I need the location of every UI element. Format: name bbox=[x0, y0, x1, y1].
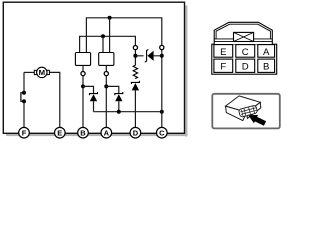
breaker contact dot bottom bbox=[22, 99, 26, 103]
pin cell E bbox=[214, 45, 233, 59]
svg-text:A: A bbox=[104, 128, 110, 137]
connector pinout: hat inner contour bbox=[216, 24, 270, 39]
wire: ZD2 to bottom link bbox=[118, 101, 120, 112]
svg-text:F: F bbox=[220, 61, 226, 72]
relay coil 2 (right box) bbox=[99, 53, 114, 66]
connector pinout: hat outer contour bbox=[214, 22, 272, 44]
terminal D bbox=[130, 127, 141, 138]
motor M1 body bbox=[37, 67, 47, 77]
arrow pointer bbox=[248, 115, 266, 126]
panel shadow bbox=[6, 6, 187, 137]
wire: relay1 bottom stub bbox=[82, 65, 84, 71]
terminal C bbox=[157, 127, 168, 138]
zener diode ZD2 bbox=[115, 92, 123, 101]
junction dot bottom link at C bbox=[160, 110, 164, 114]
wire: relay2 bottom stub bbox=[105, 65, 107, 71]
wire: D column down to terminal D bbox=[134, 90, 136, 127]
pin cell F bbox=[214, 59, 233, 72]
terminal E bbox=[55, 127, 66, 138]
junction dot rail1 bbox=[108, 16, 112, 20]
junction dot D column top bbox=[133, 54, 137, 58]
terminal A bbox=[101, 127, 112, 138]
terminal F bbox=[19, 127, 30, 138]
connector pinout: collar line lower bbox=[214, 40, 272, 42]
connector icon panel bbox=[212, 94, 279, 129]
connector joint circle under relay1 bbox=[81, 72, 85, 76]
wire: motor loop top right bbox=[49, 72, 60, 127]
svg-text:A: A bbox=[263, 47, 270, 58]
motor M1 brush right bbox=[47, 70, 49, 74]
svg-text:C: C bbox=[159, 128, 165, 137]
wire: ZD1 to bottom link bbox=[93, 101, 95, 112]
connector 3D icon: right face bbox=[247, 102, 261, 118]
svg-text:M: M bbox=[39, 68, 45, 77]
pin cell A bbox=[258, 45, 275, 59]
svg-text:C: C bbox=[242, 47, 249, 58]
connector joint circle D column bbox=[133, 46, 137, 50]
connector 3D icon: top face bbox=[226, 96, 261, 112]
wire: jog A to zener ZD2 bbox=[106, 86, 119, 93]
wire: diode branch bbox=[135, 55, 161, 57]
zener diode ZD4 (horizontal, pointing left) bbox=[145, 49, 154, 62]
rail wire top (to relay pins and C column) bbox=[86, 18, 161, 53]
component box (mirror assembly outline) bbox=[3, 2, 184, 133]
connector joint circle C column bbox=[160, 45, 164, 49]
junction dot B column bbox=[81, 84, 85, 88]
svg-text:E: E bbox=[220, 47, 226, 58]
pin cell C bbox=[236, 45, 255, 59]
circuit breaker (bracket) bbox=[21, 93, 24, 102]
wire: D column circle to dot bbox=[134, 50, 136, 56]
motor M1 brush left bbox=[34, 70, 36, 74]
wire: A column bbox=[105, 76, 107, 128]
relay coil 1 (left box) bbox=[75, 53, 90, 66]
junction dot diode branch right bbox=[160, 54, 164, 58]
svg-text:F: F bbox=[22, 128, 27, 137]
connector pinout: latch with X bbox=[234, 32, 254, 41]
junction dot A column bbox=[104, 84, 108, 88]
connector pinout: collar line upper bbox=[214, 38, 272, 40]
wire: C column bbox=[161, 50, 163, 128]
junction dot rail2 bbox=[101, 34, 105, 38]
wire: jog B to zener ZD1 bbox=[83, 86, 94, 93]
svg-text:B: B bbox=[263, 61, 269, 72]
bottom link wire to C column bbox=[94, 111, 162, 113]
svg-text:D: D bbox=[242, 61, 249, 72]
junction dot ZD2 bottom bbox=[117, 110, 121, 114]
connector 3D icon: terminal collar bbox=[238, 105, 257, 117]
wire: rail1 drop to relay 2 right pin bbox=[109, 18, 111, 53]
connector pinout: shell bbox=[212, 44, 277, 74]
breaker contact dot top bbox=[22, 91, 26, 95]
svg-text:E: E bbox=[57, 128, 62, 137]
connector joint circle under relay2 bbox=[104, 72, 108, 76]
zener diode ZD1 bbox=[90, 92, 98, 101]
connector 3D icon: left face bbox=[226, 106, 247, 121]
svg-text:D: D bbox=[133, 128, 139, 137]
junction dot diode branch left bbox=[133, 54, 137, 58]
terminal B bbox=[78, 127, 89, 138]
wire: motor loop top left bbox=[24, 71, 34, 73]
rail wire second (to relay pins and D column) bbox=[80, 36, 136, 52]
zener diode ZD3 bbox=[131, 81, 139, 91]
wire: F column bbox=[23, 72, 25, 127]
svg-text:B: B bbox=[80, 128, 86, 137]
pin cell B bbox=[258, 59, 275, 72]
pin cell D bbox=[236, 59, 255, 72]
wire: D column dot to resistor bbox=[134, 56, 136, 66]
resistor R1 bbox=[133, 65, 137, 79]
wire: B column bbox=[82, 76, 84, 128]
wire: rail2 drop to relay 2 left pin bbox=[102, 36, 104, 52]
